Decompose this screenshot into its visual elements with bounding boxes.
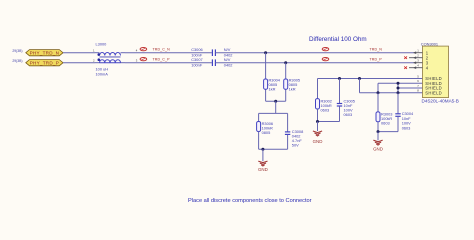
svg-text:1kR: 1kR [269,86,276,91]
svg-text:L3000: L3000 [96,42,108,47]
lead wires [95,52,100,54]
wire port to choke row1 [63,52,95,54]
resistor R3002 [316,98,332,121]
no-ERC marker pin 4 [404,66,407,69]
svg-text:100nF: 100nF [191,63,203,68]
svg-text:Place all discrete components: Place all discrete components close to C… [188,198,312,204]
svg-text:C3007: C3007 [191,57,202,62]
svg-text:0805: 0805 [262,130,271,135]
junction node bottom rail x398 [397,91,400,94]
capacitor C3005 [337,79,355,122]
capacitor C3006 [191,47,232,58]
svg-text:0603: 0603 [344,112,353,117]
svg-text:GND: GND [258,167,268,172]
wire tap down to R3005 [285,63,287,101]
wire choke to caps row1 [125,52,212,54]
wire join under R3004/R3005 [266,100,286,102]
junction node row3 x398 [397,87,400,90]
pin 3 stub [414,62,423,64]
winding bottom [100,60,121,63]
svg-text:C3006: C3006 [191,47,202,52]
ground GND3 [373,140,383,151]
capacitor C3007 [191,57,232,68]
junction node R3002 bottom [316,120,319,123]
resistor R3004 [264,77,281,91]
svg-text:D4S20L-40MA5-B: D4S20L-40MA5-B [422,99,459,104]
junction node center join [274,100,277,103]
wire shield row3 [398,87,423,89]
pin 4 stub [409,67,423,69]
wire RC pair top rail [259,112,288,114]
resistor R3003 [376,93,392,132]
svg-text:PHY_TRD_N: PHY_TRD_N [30,50,60,55]
svg-text:TRD_C_P: TRD_C_P [153,58,171,62]
wire to ground [262,149,264,161]
wire drop to RC pair [275,101,277,113]
svg-text:GND: GND [313,139,323,144]
svg-text:29(3B): 29(3B) [12,59,22,63]
diff pair marker row1 near connector [322,47,329,50]
port PHY_TRD_N [26,50,63,56]
capacitor C3008 [285,113,303,149]
svg-text:GND: GND [373,147,383,152]
junction node shield jog [358,77,361,80]
diff pair marker row1 [140,47,147,50]
junction node row2 tap [284,61,287,64]
capacitor C3004 [395,93,414,132]
wire shield row23 drop [397,83,399,93]
wire to ground GND2 [317,122,319,132]
svg-text:0603: 0603 [321,107,330,112]
junction node bottom rail x378 [377,91,380,94]
wire shield row2 drop [377,83,379,93]
wire shield rail to R3002 [317,79,319,99]
svg-text:SHIELD: SHIELD [425,90,442,95]
junction node R3003 bottom [377,130,380,133]
wire choke to caps row2 [125,62,212,64]
polarity dot top [98,53,101,56]
svg-text:0603: 0603 [381,120,390,125]
resistor R3006 [257,113,273,149]
wire port to choke row2 [63,62,95,64]
winding top [100,52,121,55]
svg-text:TRD_P: TRD_P [370,58,383,62]
wire R3002/C3005 bottom join [318,121,340,123]
junction node C3005 tap [338,77,341,80]
junction node bottom rail [261,148,264,151]
svg-text:TRD_N: TRD_N [370,48,383,52]
svg-text:100mA: 100mA [96,72,109,77]
svg-text:0402: 0402 [224,63,233,68]
svg-text:1kR: 1kR [289,86,296,91]
resistor R3005 [284,77,300,91]
svg-text:TRD_C_N: TRD_C_N [153,48,171,52]
wire to ground GND3 [377,132,379,141]
ground GND1 [258,161,268,172]
svg-text:Differential 100 Ohm: Differential 100 Ohm [309,36,367,43]
polarity dot bottom [98,58,101,61]
junction node row2 x398 [397,82,400,85]
svg-text:PHY_TRD_P: PHY_TRD_P [30,60,59,65]
svg-text:N/V: N/V [224,47,231,52]
svg-text:0603: 0603 [402,125,411,130]
connector CON3001 [409,41,459,103]
wire shield jog down [359,79,361,93]
svg-text:29(3B): 29(3B) [12,49,22,53]
wire shield row2 [378,82,423,84]
wire R3003/C3004 bottom join [378,131,398,133]
core lines [100,56,121,58]
pin 1 stub [414,52,423,54]
no-ERC marker pin 2 [404,56,407,59]
wire tap down to R3004 [265,53,267,101]
wire RC pair bottom rail [259,148,288,150]
pin 2 stub [409,57,423,59]
diff pair marker row2 near connector [322,57,329,60]
svg-text:50V: 50V [292,143,299,148]
common-mode choke L3000 [93,42,138,77]
svg-text:CON3001: CON3001 [421,41,438,46]
wire caps to connector row2 [215,62,414,64]
ground GND2 [313,131,323,144]
wire caps to connector row1 [215,52,414,54]
diff pair marker row2 [140,57,147,60]
junction node row1 tap [264,51,267,54]
wire shield top rail [318,78,423,80]
svg-text:N/V: N/V [224,57,231,62]
port PHY_TRD_P [26,60,63,66]
wire shield bottom rail [360,92,423,94]
